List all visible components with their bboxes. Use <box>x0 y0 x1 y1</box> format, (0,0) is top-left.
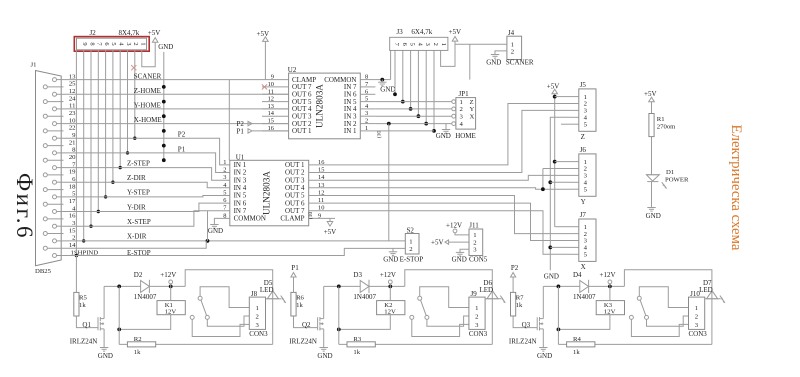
svg-text:2: 2 <box>432 43 439 46</box>
connector J4 <box>507 36 522 59</box>
relay contacts K3 <box>629 296 648 319</box>
wire +5V to U2 pin9 <box>264 41 266 79</box>
wire throw2 to J9 pin2 <box>427 316 469 326</box>
svg-text:P1: P1 <box>237 127 245 135</box>
svg-text:CON3: CON3 <box>689 330 708 338</box>
label Y-HOME <box>134 102 161 110</box>
wire throw2 to J10 pin2 <box>647 316 689 326</box>
connector J7 <box>571 219 597 261</box>
svg-text:+5V: +5V <box>431 239 444 247</box>
label P2 (U2) <box>237 120 253 128</box>
wire D1 to GND <box>651 182 653 208</box>
label J8 <box>251 290 258 298</box>
resistor R2 <box>127 336 155 356</box>
wire drain tap vertical <box>557 286 559 344</box>
svg-text:12V: 12V <box>165 309 177 316</box>
label Z-STEP <box>127 159 150 167</box>
power +12V (K2) <box>380 271 396 286</box>
ground GND (Q1) <box>98 348 113 361</box>
wire U1 OUT6 to axis connector <box>335 203 571 240</box>
label D4 <box>573 271 582 279</box>
label J10 <box>690 290 700 298</box>
svg-text:12: 12 <box>268 96 274 103</box>
svg-text:Z: Z <box>470 99 474 106</box>
label J1 <box>31 62 37 69</box>
svg-text:J3: J3 <box>397 28 404 36</box>
wire X-DIR row (pin2) to S2 <box>64 239 406 243</box>
svg-text:2: 2 <box>475 314 478 321</box>
wire throw1 to J10 pin3 <box>631 319 688 336</box>
wire U1 OUT4 to axis connector <box>335 188 571 189</box>
svg-text:3: 3 <box>424 43 431 46</box>
wire Z-DIR row (pin6) to U1 <box>64 182 230 188</box>
svg-text:1: 1 <box>473 232 476 239</box>
wire bottom rail <box>119 343 273 345</box>
wire coil top <box>609 286 611 300</box>
svg-text:Z-STEP: Z-STEP <box>127 159 150 167</box>
label Q3 <box>522 321 531 329</box>
svg-text:Q3: Q3 <box>522 321 531 329</box>
wire GND vertical tying rows 25-20 <box>162 52 166 162</box>
label U2 <box>288 66 297 74</box>
svg-text:GND: GND <box>544 272 559 280</box>
wire +12V top rail <box>405 270 493 345</box>
label LED (D5) <box>260 286 274 294</box>
diode D2 1N4007 <box>141 280 150 293</box>
svg-text:1: 1 <box>475 305 478 312</box>
wire diode to +12V node <box>589 285 625 289</box>
node P2 input <box>511 264 519 292</box>
label X axis <box>581 263 586 271</box>
wire U1 OUT1 to axis connector <box>335 104 571 165</box>
svg-text:R3: R3 <box>353 336 361 343</box>
wire U2 right pin stubs 8-1 <box>360 74 375 132</box>
svg-text:J6: J6 <box>580 146 587 154</box>
resistor R7 <box>511 292 525 316</box>
svg-text:D4: D4 <box>573 271 582 279</box>
svg-text:6X4,7k: 6X4,7k <box>411 28 432 36</box>
no-connect mark U2 OUT7 <box>262 84 267 89</box>
svg-text:22: 22 <box>69 125 76 132</box>
svg-text:S2: S2 <box>407 226 415 234</box>
svg-text:15: 15 <box>69 227 76 234</box>
wire Q3 source to GND <box>542 329 544 348</box>
power +5V (J11) <box>431 239 469 247</box>
svg-text:1: 1 <box>695 305 698 312</box>
svg-text:16: 16 <box>69 213 76 220</box>
wire JP1 pin4 GND drop <box>445 124 447 130</box>
label 1N4007 (D3) <box>353 293 376 301</box>
svg-text:14: 14 <box>268 110 275 117</box>
power +5V (U2 CLAMP) <box>257 30 270 42</box>
svg-text:6: 6 <box>223 197 226 204</box>
svg-text:Y-STEP: Y-STEP <box>127 189 150 197</box>
label Q2 <box>302 321 311 329</box>
connector J10 CON3 <box>689 297 705 329</box>
connector J11 CON5 <box>469 229 483 256</box>
label Y-STEP <box>127 189 150 197</box>
op-amp U2 ULN2803A driver <box>289 73 361 139</box>
label pin annotation U1 <box>307 212 314 220</box>
power +12V (K1) <box>160 271 176 286</box>
wire U1 OUT5 to axis connector <box>335 196 571 234</box>
wire DB25 pin stubs <box>47 80 63 256</box>
wire IN2 branch down to S2 row <box>387 122 391 241</box>
svg-text:2: 2 <box>695 314 698 321</box>
label X-STEP <box>127 218 151 226</box>
wire Q3 drain <box>542 286 544 318</box>
caption Electrical schematic (orange) <box>728 125 744 251</box>
wire U2 pin8 up to J3 <box>390 50 392 79</box>
label J5 <box>580 81 587 89</box>
svg-text:GND: GND <box>158 43 173 51</box>
svg-text:X-HOME: X-HOME <box>134 116 162 124</box>
svg-text:1: 1 <box>460 99 463 106</box>
svg-text:+5V: +5V <box>324 228 337 236</box>
connector J6 <box>571 154 597 196</box>
label 6X4,7k <box>411 28 432 36</box>
wire row pin14 rises to X-DIR row <box>64 241 207 248</box>
svg-text:1k: 1k <box>134 349 141 356</box>
wire SHPIND down to Q1 gate <box>75 256 77 293</box>
label J6 <box>580 146 587 154</box>
svg-text:1k: 1k <box>516 302 523 309</box>
label U1 left pin numbers <box>223 159 227 220</box>
svg-text:X: X <box>581 263 586 271</box>
label Y axis <box>581 198 586 206</box>
resistor R1 <box>649 114 676 137</box>
svg-text:9: 9 <box>271 74 274 81</box>
svg-text:J9: J9 <box>471 290 478 298</box>
svg-text:GND: GND <box>486 58 501 66</box>
svg-text:18: 18 <box>69 183 76 190</box>
wire bottom rail <box>558 343 712 345</box>
svg-text:12: 12 <box>318 190 324 197</box>
svg-text:CON3: CON3 <box>249 330 268 338</box>
label Y-DIR <box>127 203 146 211</box>
svg-text:6: 6 <box>103 42 110 45</box>
label U1 <box>236 153 245 161</box>
svg-text:GND: GND <box>452 255 467 263</box>
svg-text:R5: R5 <box>79 295 87 302</box>
svg-text:19: 19 <box>69 169 76 176</box>
svg-text:6: 6 <box>401 43 408 46</box>
wire Y-DIR row (pin4) to U1 <box>64 203 230 211</box>
svg-text:(10: (10 <box>376 131 383 139</box>
svg-text:6: 6 <box>365 88 368 95</box>
relay coil K3 12V <box>596 301 624 316</box>
svg-text:SCANER: SCANER <box>506 58 534 66</box>
ground GND (Q2) <box>317 348 332 361</box>
label E-STOP <box>127 249 151 257</box>
svg-text:+5V: +5V <box>148 29 161 37</box>
ground GND (Q3) <box>537 348 552 361</box>
label IRLZ24N (Q3) <box>509 338 537 346</box>
svg-text:17: 17 <box>69 198 76 205</box>
wire R6 to gate <box>294 316 318 328</box>
label HOME <box>455 132 476 140</box>
wire P1 net row (pin8) to U1 <box>64 153 230 173</box>
ground GND (J2 area) <box>158 43 173 51</box>
label CON5 <box>469 255 488 263</box>
resistor R3 <box>347 336 375 356</box>
svg-text:HOME: HOME <box>455 132 476 140</box>
label D5 <box>264 279 273 287</box>
wire U1 OUT7 to axis connector <box>335 211 571 255</box>
svg-text:GND: GND <box>646 212 661 220</box>
svg-text:CLAMP: CLAMP <box>280 215 304 223</box>
label S2 <box>407 226 415 234</box>
svg-text:J5: J5 <box>580 81 587 89</box>
wire X-STEP row (pin3) to U1 <box>64 211 230 227</box>
ground GND (J11) <box>452 252 467 263</box>
svg-text:23: 23 <box>69 110 76 117</box>
svg-text:R7: R7 <box>516 295 524 302</box>
svg-text:9: 9 <box>318 212 321 219</box>
svg-text:D1: D1 <box>666 169 674 176</box>
caption Fig.6 <box>12 173 37 240</box>
svg-text:J11: J11 <box>469 221 479 229</box>
resistor R5 <box>74 292 88 316</box>
svg-text:12V: 12V <box>604 309 616 316</box>
svg-text:Y-HOME: Y-HOME <box>134 102 161 110</box>
svg-text:GND: GND <box>98 352 113 360</box>
svg-text:Z-DIR: Z-DIR <box>127 174 146 182</box>
svg-text:J8: J8 <box>251 290 258 298</box>
svg-text:GND: GND <box>436 132 451 140</box>
wire coil top <box>170 286 172 300</box>
svg-text:5: 5 <box>365 96 368 103</box>
wire Z-HOME row (pin12) to U2 OUT6 <box>64 93 289 95</box>
wire drain rail <box>324 285 361 289</box>
wire X-DIR branch to U1 IN7 <box>207 211 209 241</box>
svg-text:CON5: CON5 <box>469 255 488 263</box>
diode D4 1N4007 <box>580 280 589 293</box>
label SCANER (J4) <box>506 58 534 66</box>
label E-STOP (S2) <box>400 255 424 263</box>
LED D7 <box>705 291 725 303</box>
svg-text:Y-DIR: Y-DIR <box>127 203 146 211</box>
wire +12V to J11 pin1 <box>455 233 469 235</box>
svg-text:2: 2 <box>132 42 139 45</box>
svg-text:2: 2 <box>223 167 226 174</box>
svg-text:OUT 1: OUT 1 <box>292 127 312 135</box>
wire Q2 drain <box>323 286 325 318</box>
svg-text:J7: J7 <box>580 211 587 219</box>
svg-text:(10: (10 <box>307 212 314 220</box>
svg-text:+12V: +12V <box>600 271 616 279</box>
svg-text:25: 25 <box>69 81 76 88</box>
wire bottom rail <box>339 343 493 345</box>
svg-text:3: 3 <box>125 42 132 45</box>
relay contacts K2 <box>410 296 429 319</box>
svg-text:1: 1 <box>223 159 226 166</box>
LED D1 POWER <box>646 175 666 189</box>
wire J5 pin5 stub <box>561 123 571 125</box>
svg-text:R1: R1 <box>657 116 665 123</box>
wire J3 pull-down verticals <box>393 50 436 132</box>
label J4 <box>508 29 515 37</box>
wire +12V top rail <box>624 270 712 345</box>
label J9 <box>471 290 478 298</box>
svg-text:CON3: CON3 <box>469 330 488 338</box>
label CON3 (J8) <box>249 330 268 338</box>
svg-text:ULN2803A: ULN2803A <box>262 171 272 215</box>
svg-text:R2: R2 <box>134 336 142 343</box>
wire drain tap vertical <box>118 286 120 344</box>
wire diode to +12V node <box>149 285 185 289</box>
resistor network J3 box <box>390 37 448 50</box>
svg-text:DB25: DB25 <box>35 268 52 275</box>
svg-text:Q2: Q2 <box>302 321 311 329</box>
resistor R4 <box>567 336 595 356</box>
wire J4 pin1 feed <box>455 44 507 79</box>
wire U2 IN3 row to JP1 pin3 <box>375 115 451 117</box>
svg-text:GND: GND <box>208 227 223 235</box>
svg-text:1N4007: 1N4007 <box>573 293 596 301</box>
svg-text:2: 2 <box>511 49 514 56</box>
svg-text:16: 16 <box>318 159 324 166</box>
label CON3 (J9) <box>469 330 488 338</box>
wire GND rail to J5/J6/J7 pin4 <box>548 117 570 270</box>
svg-text:1N4007: 1N4007 <box>353 293 376 301</box>
svg-text:ULN2803A: ULN2803A <box>315 84 325 128</box>
power +5V (J5 rail) <box>547 82 560 94</box>
svg-text:3: 3 <box>223 174 226 181</box>
label 1N4007 (D2) <box>134 293 157 301</box>
connector J9 CON3 <box>469 297 485 329</box>
svg-text:1: 1 <box>139 42 146 45</box>
label JP1 <box>459 90 470 98</box>
svg-text:Z: Z <box>581 133 585 141</box>
svg-text:E-STOP: E-STOP <box>400 255 424 263</box>
svg-text:10: 10 <box>318 205 324 212</box>
svg-text:P1: P1 <box>291 264 299 272</box>
relay coil K1 12V <box>157 301 185 316</box>
wire coil top <box>389 286 391 300</box>
wire U1 OUT3 to axis connector <box>335 175 571 180</box>
power +5V (J3) <box>449 28 462 41</box>
label P2 (left) <box>178 131 186 139</box>
wire U2 IN5 row to JP1 pin1 <box>375 101 451 103</box>
wire R5 to gate <box>76 316 98 328</box>
wire pole to J8 pin1 <box>200 287 249 308</box>
relay coil K2 12V <box>377 301 405 316</box>
transistor Q1 IRLZ24N <box>98 317 104 331</box>
svg-text:2: 2 <box>409 246 412 253</box>
wire U2 IN1 row <box>375 130 434 132</box>
label D6 <box>483 279 492 287</box>
wire +5V to J3 pin1 <box>441 41 455 66</box>
svg-text:11: 11 <box>318 197 324 204</box>
svg-text:5: 5 <box>223 190 226 197</box>
wire Q1 drain <box>103 286 105 318</box>
svg-text:IN 1: IN 1 <box>344 127 357 135</box>
label Z-DIR <box>127 174 146 182</box>
label LED (D7) <box>699 286 713 294</box>
svg-text:+12V: +12V <box>380 271 396 279</box>
label X-DIR <box>127 233 147 241</box>
svg-text:2: 2 <box>256 314 259 321</box>
label P1 (left) <box>178 145 186 153</box>
svg-text:P2: P2 <box>178 131 186 139</box>
wire throw1 to J8 pin3 <box>192 319 249 336</box>
wire U2 left pin stubs 9-16 <box>262 74 289 132</box>
wire J11 pin3 to GND <box>460 249 469 252</box>
ground GND (U2 COMMON) <box>378 82 395 93</box>
svg-text:D2: D2 <box>134 271 143 279</box>
label LED (D6) <box>480 286 494 294</box>
label IRLZ24N (Q1) <box>70 338 98 346</box>
svg-text:X: X <box>470 114 475 121</box>
svg-text:1N4007: 1N4007 <box>134 293 157 301</box>
transistor Q3 IRLZ24N <box>537 317 543 331</box>
power +5V (J2) <box>148 29 161 42</box>
svg-text:+5V: +5V <box>449 28 462 36</box>
wire diode to +12V node <box>369 285 405 289</box>
label P1 (U2) <box>237 127 289 135</box>
wire U1 COMMON to GND <box>214 218 229 224</box>
label CON3 (J10) <box>689 330 708 338</box>
wire S2 pin2 to GND <box>392 248 394 251</box>
wire coil bottom return <box>337 315 390 332</box>
label Z-HOME <box>134 87 161 95</box>
wire U2 COMMON to GND <box>375 78 390 83</box>
resistor R6 <box>291 292 305 316</box>
label J7 <box>580 211 587 219</box>
wire SHPIND/E-STOP row (pin1) <box>64 248 406 255</box>
svg-text:R4: R4 <box>573 336 581 343</box>
connector J8 CON3 <box>249 297 265 329</box>
svg-text:1k: 1k <box>296 302 303 309</box>
wire Y-HOME row (pin11) to U2 OUT4 <box>64 108 289 110</box>
svg-text:12V: 12V <box>384 309 396 316</box>
wire X-HOME row (pin10) to U2 OUT2 <box>64 123 289 125</box>
svg-text:R6: R6 <box>296 295 304 302</box>
svg-text:GND: GND <box>380 86 395 94</box>
wire P2 net row (pin9) to U1 <box>64 138 230 165</box>
svg-text:1: 1 <box>511 41 514 48</box>
wire J6 pin2 stub <box>541 169 571 192</box>
power +12V (J11) <box>446 221 462 233</box>
wire SCANER row (pin13) to U2 CLAMP <box>64 79 289 81</box>
ground GND (S2) <box>383 252 398 264</box>
wire SCANER branch down to U1 <box>228 80 230 161</box>
svg-text:J4: J4 <box>508 29 515 37</box>
svg-text:D3: D3 <box>353 271 362 279</box>
connector J1 DB25 parallel port <box>36 71 62 266</box>
wire U1 right pin stubs 16-9 <box>309 159 335 220</box>
wire Q2 source to GND <box>323 329 325 348</box>
svg-text:8: 8 <box>365 74 368 81</box>
ground GND (U1 COMMON) <box>208 225 223 235</box>
wire R1 to D1 <box>651 137 653 175</box>
svg-text:Z-HOME: Z-HOME <box>134 87 161 95</box>
svg-text:U1: U1 <box>236 153 245 161</box>
svg-text:Фиг.6: Фиг.6 <box>12 173 37 240</box>
svg-text:Y: Y <box>470 106 475 113</box>
wire J2 pull-up verticals <box>75 50 137 257</box>
transistor Q2 IRLZ24N <box>318 317 324 331</box>
svg-text:LED: LED <box>260 286 274 294</box>
label IRLZ24N (Q2) <box>289 338 317 346</box>
svg-text:IRLZ24N: IRLZ24N <box>509 338 537 346</box>
wire Q1 source to GND <box>103 329 105 348</box>
node P1 input <box>291 264 299 292</box>
svg-text:10: 10 <box>268 81 274 88</box>
svg-text:9: 9 <box>81 42 88 45</box>
power +5V (U1 CLAMP) <box>324 218 337 236</box>
